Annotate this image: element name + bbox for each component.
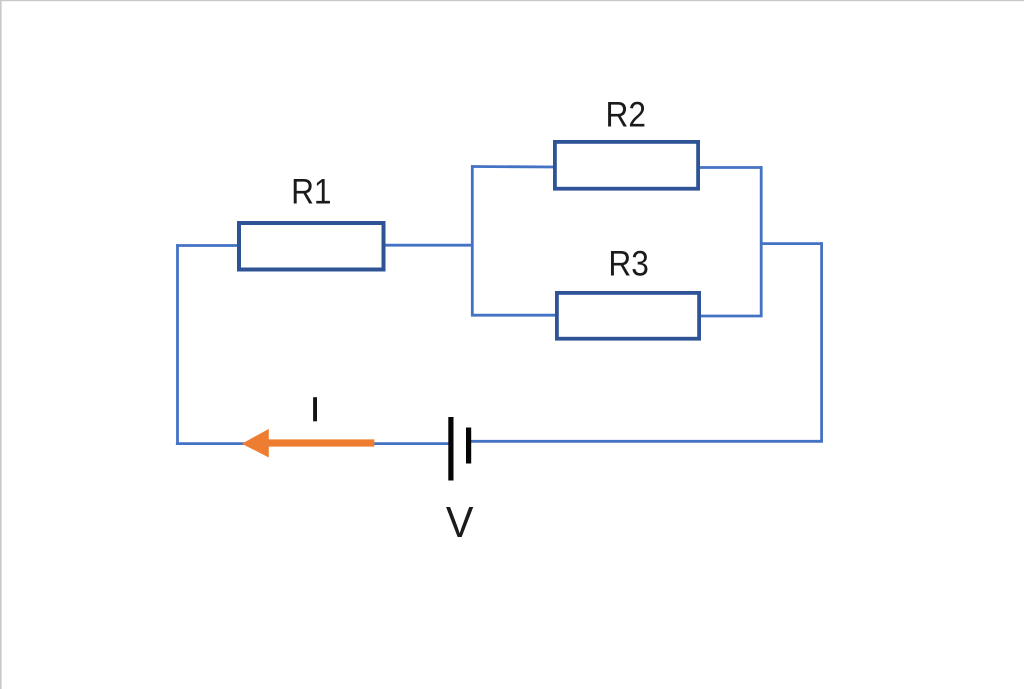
svg-text:R3: R3 xyxy=(608,245,648,284)
svg-text:R2: R2 xyxy=(605,96,645,135)
svg-text:V: V xyxy=(446,498,474,546)
svg-text:R1: R1 xyxy=(291,173,331,212)
